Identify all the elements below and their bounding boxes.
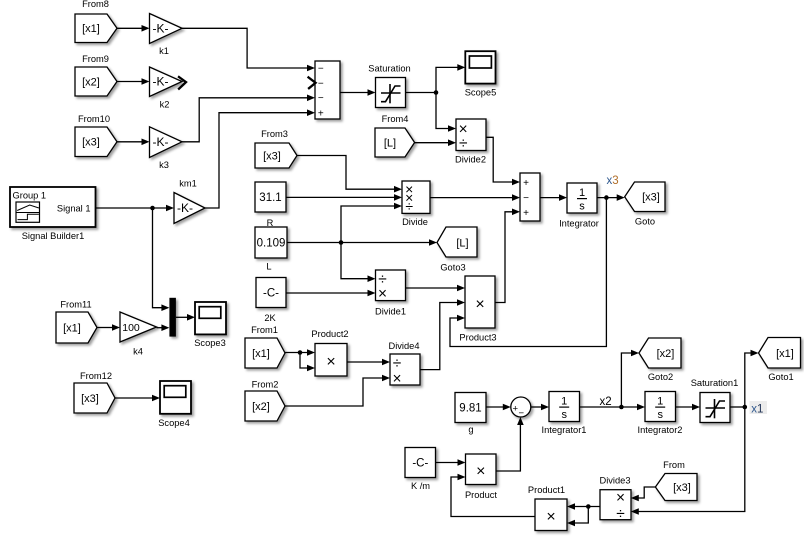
From tag From [x3] (flipped): [655, 460, 697, 501]
svg-text:x2: x2: [600, 396, 612, 408]
wire Integrator1 to Integrator2: [580, 404, 646, 411]
sum block Sum1: [315, 61, 340, 120]
svg-text:-C-: -C-: [263, 287, 279, 299]
wire Divide3 to Product1 inputs: [567, 503, 600, 526]
svg-text:100: 100: [122, 322, 140, 334]
wire Signal Builder1 to km1: [96, 205, 174, 212]
svg-text:From11: From11: [60, 300, 91, 310]
wire Integrator to Goto x3: [597, 194, 625, 201]
wire From10 to k3: [117, 139, 150, 146]
svg-text:s: s: [657, 409, 663, 421]
wire Integrator2 to Saturation1: [676, 404, 701, 411]
divide Divide: [402, 181, 430, 227]
svg-text:Goto3: Goto3: [440, 263, 465, 273]
svg-text:[x3]: [x3]: [673, 482, 691, 494]
From tag From8 [x1]: [75, 0, 117, 43]
saturation Saturation: [368, 63, 410, 107]
svg-text:From10: From10: [78, 114, 110, 124]
integrator Integrator: [559, 183, 599, 229]
svg-text:−: −: [523, 193, 529, 204]
wire junction to mux input1: [153, 208, 170, 311]
svg-text:×: ×: [476, 463, 485, 480]
svg-text:[x1]: [x1]: [252, 348, 270, 360]
dangling input marker Sum1 input2: [309, 77, 316, 88]
wire From9 to k2: [117, 78, 150, 85]
svg-text:Integrator1: Integrator1: [542, 425, 587, 435]
svg-text:Product3: Product3: [459, 333, 496, 343]
svg-text:Divide4: Divide4: [388, 341, 419, 351]
svg-text:From12: From12: [80, 371, 112, 381]
svg-text:L: L: [266, 262, 271, 272]
svg-text:×: ×: [475, 296, 484, 313]
wire Sum1 to Saturation: [340, 89, 376, 96]
product Product: [465, 454, 497, 500]
goto tag Goto1 [x1]: [759, 338, 801, 383]
svg-text:[x2]: [x2]: [252, 401, 270, 413]
divide Divide3 (flipped): [599, 475, 631, 522]
wire From11 to k4: [97, 324, 120, 331]
signal label x3: [607, 175, 619, 187]
integrator Integrator2: [638, 392, 683, 436]
sum circle Sum3: [511, 397, 531, 419]
svg-text:From9: From9: [82, 54, 109, 64]
wire x2 junction to Goto2: [621, 350, 639, 407]
wire g 9.81 to Sum3: [486, 404, 511, 411]
svg-text:Divide3: Divide3: [599, 475, 630, 485]
svg-text:k4: k4: [133, 347, 143, 357]
svg-text:s: s: [579, 200, 585, 212]
svg-text:-K-: -K-: [153, 135, 169, 149]
wire k3 to Sum1 input3: [182, 95, 315, 142]
svg-text:[x3]: [x3]: [263, 150, 281, 162]
svg-text:Integrator: Integrator: [559, 219, 599, 229]
svg-text:k1: k1: [159, 46, 169, 56]
wire K/m to Product input1: [436, 459, 466, 466]
wire Sum2 to Integrator: [540, 194, 567, 201]
wire Saturation to junction to Scope5 and Divide2 input1: [406, 64, 466, 132]
From tag From3 [x3]: [255, 129, 297, 168]
divide Divide4: [388, 341, 420, 388]
wire Divide4 to Product3 input2: [420, 299, 465, 369]
svg-text:×: ×: [616, 490, 625, 507]
svg-text:[x1]: [x1]: [776, 348, 794, 360]
svg-text:k3: k3: [159, 160, 169, 170]
wire Product1 to Product input2: [451, 474, 535, 517]
product Product1 (flipped): [528, 485, 567, 531]
svg-text:[x2]: [x2]: [657, 348, 675, 360]
svg-text:-K-: -K-: [177, 201, 193, 215]
dangling output marker k2: [179, 77, 186, 89]
wire Product3 to Sum2 input3: [495, 209, 520, 303]
svg-text:g: g: [468, 425, 473, 435]
svg-text:K /m: K /m: [411, 481, 430, 491]
svg-text:Saturation1: Saturation1: [691, 378, 739, 388]
wire k1 to Sum1 input1: [182, 28, 315, 71]
svg-text:k2: k2: [160, 100, 170, 110]
svg-text:Scope3: Scope3: [194, 338, 226, 348]
svg-text:−: −: [318, 79, 324, 90]
divide Divide1: [375, 270, 406, 317]
svg-text:Goto2: Goto2: [648, 372, 673, 382]
svg-text:[x3]: [x3]: [81, 393, 99, 405]
wire From3 to Divide input1: [297, 156, 402, 193]
svg-text:[L]: [L]: [456, 237, 468, 249]
svg-text:Scope4: Scope4: [158, 418, 190, 428]
svg-text:x1: x1: [751, 403, 763, 415]
svg-text:×: ×: [392, 371, 401, 388]
svg-text:[x3]: [x3]: [82, 137, 100, 149]
gain km1: [174, 179, 205, 224]
svg-text:x3: x3: [607, 175, 619, 187]
scope Scope4: [158, 381, 191, 428]
svg-text:Signal Builder1: Signal Builder1: [22, 231, 85, 241]
wire Product2 to Divide4 input1: [347, 359, 390, 366]
wire From2 to Divide4 input2: [285, 375, 390, 406]
svg-text:[x1]: [x1]: [82, 23, 100, 35]
svg-text:+: +: [523, 178, 529, 189]
svg-text:1: 1: [657, 396, 663, 408]
svg-text:+: +: [523, 208, 529, 219]
svg-text:-K-: -K-: [153, 21, 169, 35]
svg-text:Group 1: Group 1: [13, 191, 47, 201]
wire From4 [L] to Divide2 input2: [415, 139, 456, 146]
svg-text:÷: ÷: [405, 198, 413, 214]
constant K/m = -C-: [405, 448, 436, 492]
svg-text:+: +: [318, 109, 324, 120]
svg-text:×: ×: [546, 508, 555, 525]
svg-text:-C-: -C-: [412, 457, 428, 469]
constant 2K = -C-: [256, 278, 286, 324]
svg-text:×: ×: [326, 353, 335, 370]
svg-text:[L]: [L]: [384, 137, 396, 149]
gain k1: [150, 14, 183, 57]
wire Sum3 to Integrator1: [531, 404, 549, 411]
svg-text:[x3]: [x3]: [642, 192, 660, 204]
svg-text:Scope5: Scope5: [465, 87, 497, 97]
svg-text:s: s: [561, 409, 567, 421]
signal label x1: [750, 401, 768, 415]
integrator Integrator1: [542, 392, 587, 436]
svg-text:−: −: [318, 63, 324, 74]
wire Divide to Sum2 input2: [430, 194, 520, 201]
wire Divide1 to Product3 input1: [406, 285, 466, 292]
constant R = 31.1: [255, 182, 286, 228]
wire km1 to Sum1 input4: [205, 109, 315, 208]
gain k4: [120, 312, 157, 357]
svg-text:Product2: Product2: [311, 329, 348, 339]
wire Divide2 to Sum2 input1: [486, 137, 520, 185]
goto tag Goto [x3]: [625, 182, 665, 227]
svg-text:1: 1: [579, 187, 585, 199]
svg-text:÷: ÷: [459, 135, 468, 152]
constant L = 0.109: [255, 227, 287, 272]
wire L 0.109 to Goto3 with branches to Divide input3 and Divide1 input1: [287, 203, 437, 282]
From tag From12 [x3]: [74, 371, 115, 413]
svg-text:km1: km1: [179, 179, 197, 189]
svg-text:Divide2: Divide2: [455, 155, 486, 165]
svg-text:From8: From8: [82, 0, 109, 9]
svg-text:Product1: Product1: [528, 485, 565, 495]
constant g = 9.81: [455, 393, 486, 435]
svg-text:0.109: 0.109: [257, 238, 286, 250]
block Signal Builder1: [10, 187, 96, 241]
svg-text:1: 1: [561, 396, 567, 408]
scope Scope3: [194, 302, 226, 348]
From tag From11 [x1]: [56, 300, 97, 344]
svg-text:×: ×: [378, 286, 387, 303]
wire From1 to Product2 inputs: [285, 349, 315, 371]
product Product2: [311, 329, 348, 376]
svg-text:From: From: [663, 460, 685, 470]
divide Divide2: [455, 119, 486, 165]
wire From [x3] to Divide3 input1: [631, 487, 656, 501]
product Product3: [459, 276, 496, 343]
mux: [169, 298, 176, 337]
svg-text:9.81: 9.81: [459, 402, 481, 414]
goto tag Goto2 [x2]: [639, 338, 681, 382]
svg-text:Divide: Divide: [402, 217, 428, 227]
svg-text:÷: ÷: [616, 505, 625, 522]
saturation Saturation1: [691, 378, 739, 423]
svg-text:−: −: [519, 408, 525, 419]
svg-text:Divide1: Divide1: [375, 307, 406, 317]
svg-text:[x2]: [x2]: [82, 76, 100, 88]
From tag From4 [L]: [375, 114, 415, 157]
wire From12 to Scope4: [115, 395, 160, 402]
svg-text:From3: From3: [261, 129, 288, 139]
sum block Sum2: [520, 173, 540, 221]
wire k4 to mux input2: [157, 324, 170, 331]
svg-text:2K: 2K: [264, 313, 276, 323]
svg-text:Signal 1: Signal 1: [57, 204, 91, 214]
From tag From10 [x3]: [75, 114, 117, 156]
gain k2: [150, 67, 183, 110]
svg-text:From4: From4: [382, 114, 409, 124]
svg-text:From1: From1: [251, 325, 278, 335]
svg-text:Goto: Goto: [635, 217, 655, 227]
goto tag Goto3 [L]: [437, 227, 477, 273]
svg-text:Product: Product: [465, 490, 497, 500]
wire 2K -C- to Divide1 input2: [286, 290, 376, 297]
svg-text:31.1: 31.1: [259, 192, 281, 204]
svg-text:Saturation: Saturation: [368, 63, 410, 73]
From tag From9 [x2]: [75, 54, 117, 96]
svg-text:Goto1: Goto1: [768, 372, 793, 382]
From tag From2 [x2]: [245, 380, 285, 422]
svg-text:[x1]: [x1]: [63, 322, 81, 334]
svg-text:÷: ÷: [393, 355, 402, 372]
svg-text:-K-: -K-: [153, 75, 169, 89]
gain k3: [150, 127, 183, 170]
wire R 31.1 to Divide input2: [286, 194, 402, 201]
wire x3 loop to Product3 input3: [450, 198, 606, 347]
wire Product to Sum3 bottom: [496, 417, 524, 471]
signal label x2: [600, 396, 612, 408]
scope Scope5: [465, 51, 497, 97]
svg-text:−: −: [318, 93, 324, 104]
wire Saturation1 to x1 junction to Goto1 and Divide3 input2: [631, 350, 759, 515]
wire mux to Scope3: [176, 314, 195, 321]
From tag From1 [x1]: [245, 325, 285, 368]
wire From8 to k1: [117, 25, 150, 32]
svg-text:Integrator2: Integrator2: [638, 425, 683, 435]
svg-text:From2: From2: [252, 380, 279, 390]
